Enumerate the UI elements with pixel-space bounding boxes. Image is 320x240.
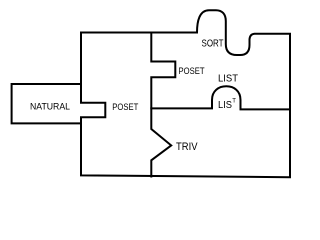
internal horizontal divider with LIST dome: [151, 86, 290, 109]
svg-text:LIST: LIST: [218, 73, 238, 84]
svg-text:POSET: POSET: [112, 102, 138, 113]
svg-text:TRIV: TRIV: [176, 141, 198, 153]
svg-text:NATURAL: NATURAL: [30, 102, 70, 113]
svg-text:SORT: SORT: [202, 38, 224, 50]
module NATURAL box: [12, 84, 81, 123]
svg-text:LIS: LIS: [218, 99, 232, 111]
svg-text:POSET: POSET: [179, 66, 205, 77]
main composite piece outline with SORT knob and notch: [81, 10, 290, 177]
svg-text:T: T: [232, 99, 236, 105]
internal divider with POSET tab and TRIV notch: [151, 33, 175, 177]
